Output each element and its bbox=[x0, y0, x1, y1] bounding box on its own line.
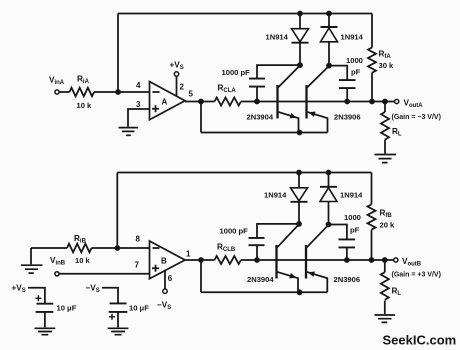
diode D2 1N914 (up) bbox=[321, 26, 338, 28]
capacitor C6 10uF plates bbox=[109, 303, 128, 312]
svg-text:2N3906: 2N3906 bbox=[334, 275, 361, 284]
svg-text:+VS: +VS bbox=[12, 284, 26, 295]
svg-text:1000: 1000 bbox=[344, 213, 361, 222]
node rail diode D3 bbox=[296, 170, 302, 176]
wire C6 to ground bbox=[117, 312, 119, 327]
wire feedback vertical B bbox=[116, 173, 118, 249]
minus sign B bbox=[153, 247, 160, 249]
svg-text:2: 2 bbox=[180, 83, 185, 92]
node C4 rail bbox=[344, 257, 350, 263]
resistor RfA zigzag bbox=[368, 48, 376, 73]
svg-text:−VS: −VS bbox=[86, 284, 100, 295]
svg-text:2N3906: 2N3906 bbox=[334, 113, 361, 122]
svg-text:A: A bbox=[162, 98, 168, 107]
svg-text:1N914: 1N914 bbox=[266, 33, 289, 42]
node collector Q2 bbox=[326, 63, 332, 69]
diode D1 1N914 (down) bbox=[292, 29, 309, 42]
wire feedback vertical A bbox=[117, 14, 119, 93]
node collector Q1 bbox=[297, 62, 303, 68]
resistor RL B zigzag bbox=[381, 272, 389, 300]
diode D3 1N914 (down) bbox=[291, 188, 308, 201]
resistor RiB zigzag bbox=[67, 244, 91, 253]
wire clamp bottom rail A bbox=[201, 132, 328, 134]
ground RL B bbox=[375, 315, 396, 322]
wire D2 anode bbox=[328, 42, 330, 66]
wire clamp bottom rail B bbox=[201, 291, 327, 293]
wire top rail B bbox=[117, 172, 371, 174]
node emitter rail B bbox=[297, 289, 303, 295]
resistor R1A zigzag bbox=[70, 88, 94, 97]
transistor Q2 2N3906 bar bbox=[305, 85, 307, 119]
Q4 collector bbox=[306, 225, 328, 248]
wire RL-A top bbox=[384, 102, 386, 113]
svg-text:pF: pF bbox=[350, 226, 360, 235]
svg-text:30 k: 30 k bbox=[379, 61, 395, 70]
node output A bbox=[198, 99, 204, 105]
wire RL-B top bbox=[384, 260, 386, 272]
pin 6 wire bbox=[164, 270, 166, 289]
node collector Q4 bbox=[326, 222, 332, 228]
wire output A vertical bbox=[200, 102, 202, 133]
svg-text:3: 3 bbox=[136, 100, 141, 109]
svg-text:VinB: VinB bbox=[50, 256, 66, 267]
op-amp U1 A triangle bbox=[150, 82, 186, 120]
node summing B bbox=[114, 245, 120, 251]
resistor RCLA zigzag bbox=[215, 98, 241, 106]
op-amp U2 B triangle bbox=[150, 241, 186, 279]
ground C6 bbox=[108, 328, 129, 334]
wire C2 to node bbox=[329, 66, 347, 81]
svg-text:B: B bbox=[161, 257, 167, 266]
wire D3 anode bbox=[298, 173, 300, 188]
wire C2 bottom bbox=[346, 88, 348, 101]
svg-text:7: 7 bbox=[135, 261, 140, 270]
wire RfB bottom bbox=[371, 230, 373, 260]
svg-text:RCLA: RCLA bbox=[218, 84, 237, 95]
Q2 collector bbox=[307, 66, 329, 88]
wire RfB top bbox=[371, 173, 373, 205]
terminal VoutB bbox=[394, 258, 398, 262]
Q4 emitter with arrow bbox=[306, 272, 327, 293]
node RCLB-cap junction bbox=[254, 257, 260, 263]
wire D3 cathode bbox=[298, 202, 300, 224]
svg-text:+VS: +VS bbox=[170, 61, 184, 72]
terminal VoutA bbox=[395, 99, 399, 103]
svg-text:RiB: RiB bbox=[74, 234, 87, 245]
svg-text:10 μF: 10 μF bbox=[129, 304, 149, 313]
capacitor C1 left 1000pF plates bbox=[249, 79, 265, 87]
wire D4 anode bbox=[328, 202, 330, 225]
wire +Vs to cap bbox=[28, 288, 45, 304]
capacitor C3 left 1000pF plates bbox=[249, 238, 265, 245]
capacitor C2 right 1000pF plates bbox=[339, 80, 356, 88]
transistor Q4 2N3906 bar bbox=[305, 245, 307, 279]
Q1 emitter with arrow bbox=[278, 112, 299, 133]
svg-text:pF: pF bbox=[351, 68, 361, 77]
svg-text:20 k: 20 k bbox=[380, 221, 396, 230]
node RL branch B bbox=[382, 257, 388, 263]
wire RL-A bottom bbox=[384, 140, 386, 154]
node collector Q3 bbox=[296, 221, 302, 227]
node RfA rail bbox=[369, 99, 375, 105]
wire D2 cathode top bbox=[328, 14, 330, 28]
svg-text:6: 6 bbox=[168, 274, 173, 283]
wire left to RiB bbox=[31, 247, 67, 249]
svg-text:1: 1 bbox=[186, 250, 191, 259]
plus sign bypass A bbox=[35, 295, 41, 301]
svg-text:1N914: 1N914 bbox=[340, 191, 363, 200]
node C2 rail bbox=[344, 99, 350, 105]
svg-text:RfA: RfA bbox=[379, 50, 392, 61]
resistor RL A zigzag bbox=[381, 112, 389, 140]
wire C5 to ground bbox=[44, 312, 46, 327]
svg-text:1000: 1000 bbox=[346, 56, 363, 65]
wire pin3 to ground bbox=[128, 109, 150, 127]
diode D4 1N914 (up) bbox=[320, 186, 337, 188]
svg-text:10 k: 10 k bbox=[77, 101, 93, 110]
node RL branch A bbox=[382, 99, 388, 105]
svg-text:SeekIC.com: SeekIC.com bbox=[383, 333, 457, 348]
ground RL A bbox=[375, 155, 397, 163]
terminal VinA bbox=[55, 90, 59, 94]
svg-text:RfB: RfB bbox=[380, 209, 393, 220]
svg-text:1N914: 1N914 bbox=[341, 33, 364, 42]
node RCLA-cap junction bbox=[254, 99, 260, 105]
svg-text:RL: RL bbox=[392, 287, 402, 298]
resistor RfB zigzag bbox=[368, 204, 376, 229]
node RfB rail bbox=[369, 257, 375, 263]
wire D1 cathode bbox=[299, 43, 301, 65]
ground C5 bbox=[35, 328, 56, 334]
wire C4 bottom bbox=[346, 247, 348, 260]
wire VinA to RiA bbox=[59, 91, 69, 93]
terminal VinB bbox=[55, 272, 59, 276]
svg-text:2N3904: 2N3904 bbox=[247, 113, 274, 122]
transistor Q1 2N3904 bar bbox=[276, 85, 278, 119]
svg-text:4: 4 bbox=[136, 81, 141, 90]
svg-text:(Gain = +3 V/V): (Gain = +3 V/V) bbox=[392, 272, 441, 279]
svg-text:1000 pF: 1000 pF bbox=[220, 227, 249, 236]
svg-text:10 k: 10 k bbox=[75, 256, 91, 265]
node rail diode D2 bbox=[326, 11, 332, 17]
svg-text:10 μF: 10 μF bbox=[57, 304, 77, 313]
wire clamp row B bbox=[241, 259, 394, 261]
wire VinB to op-amp bbox=[59, 273, 149, 275]
capacitor C4 right 1000pF plates bbox=[339, 239, 356, 247]
wire -Vs to cap bbox=[102, 288, 118, 304]
wire C3 bottom bbox=[256, 245, 258, 260]
pin 2 +Vs circle bbox=[174, 72, 178, 76]
minus sign A bbox=[153, 91, 160, 93]
plus sign bypass B bbox=[109, 314, 115, 320]
wire C3 top to node bbox=[257, 224, 299, 238]
node output B bbox=[198, 257, 204, 263]
plus sign B bbox=[152, 265, 159, 272]
svg-text:−VS: −VS bbox=[157, 301, 171, 312]
node emitter rail A bbox=[297, 130, 303, 136]
ground pin3 A bbox=[119, 128, 139, 136]
wire D4 cathode top bbox=[328, 173, 330, 187]
wire C1 bottom bbox=[256, 87, 258, 102]
svg-text:5: 5 bbox=[189, 90, 194, 99]
wire RfA top bbox=[371, 14, 373, 48]
wire C4 to node bbox=[329, 225, 347, 240]
svg-text:1N914: 1N914 bbox=[264, 191, 287, 200]
node rail diode D4 bbox=[326, 170, 332, 176]
plus sign A bbox=[152, 105, 159, 112]
wire RfA bottom bbox=[371, 73, 373, 102]
wire C1 top to node bbox=[257, 65, 300, 79]
wire RiA to op-amp bbox=[94, 91, 150, 93]
svg-text:RiA: RiA bbox=[77, 75, 90, 86]
transistor Q3 2N3904 bar bbox=[275, 245, 277, 279]
wire D1 anode bbox=[299, 14, 301, 29]
Q1 collector bbox=[278, 65, 300, 87]
pin 2 wire bbox=[176, 76, 178, 96]
Q3 collector bbox=[277, 224, 299, 248]
capacitor C5 10uF plates bbox=[36, 304, 54, 312]
svg-text:2N3904: 2N3904 bbox=[247, 275, 274, 284]
svg-text:1000 pF: 1000 pF bbox=[222, 68, 251, 77]
wire RiB left to ground bbox=[30, 248, 32, 264]
svg-text:VinA: VinA bbox=[49, 76, 65, 87]
svg-text:8: 8 bbox=[136, 235, 141, 244]
wire output B vertical bbox=[200, 260, 202, 292]
node summing A bbox=[115, 89, 121, 95]
wire top rail A bbox=[118, 13, 372, 15]
node rail diode D1 bbox=[297, 11, 303, 17]
svg-text:(Gain = −3 V/V): (Gain = −3 V/V) bbox=[392, 114, 441, 121]
wire RL-B bottom bbox=[384, 301, 386, 315]
Q3 emitter with arrow bbox=[277, 272, 298, 293]
pin 6 -Vs circle bbox=[163, 289, 167, 293]
ground RiB input bbox=[21, 265, 43, 273]
svg-text:VoutA: VoutA bbox=[404, 99, 424, 110]
wire op-amp B output bbox=[185, 259, 215, 261]
wire RiB to op-amp bbox=[92, 247, 150, 249]
wire op-amp A output bbox=[185, 101, 215, 103]
svg-text:RCLB: RCLB bbox=[217, 243, 236, 254]
svg-text:VoutB: VoutB bbox=[402, 257, 422, 268]
resistor RCLB zigzag bbox=[215, 256, 241, 264]
svg-text:RL: RL bbox=[392, 127, 402, 138]
wire clamp row A bbox=[241, 101, 395, 103]
Q2 emitter with arrow bbox=[307, 112, 328, 133]
